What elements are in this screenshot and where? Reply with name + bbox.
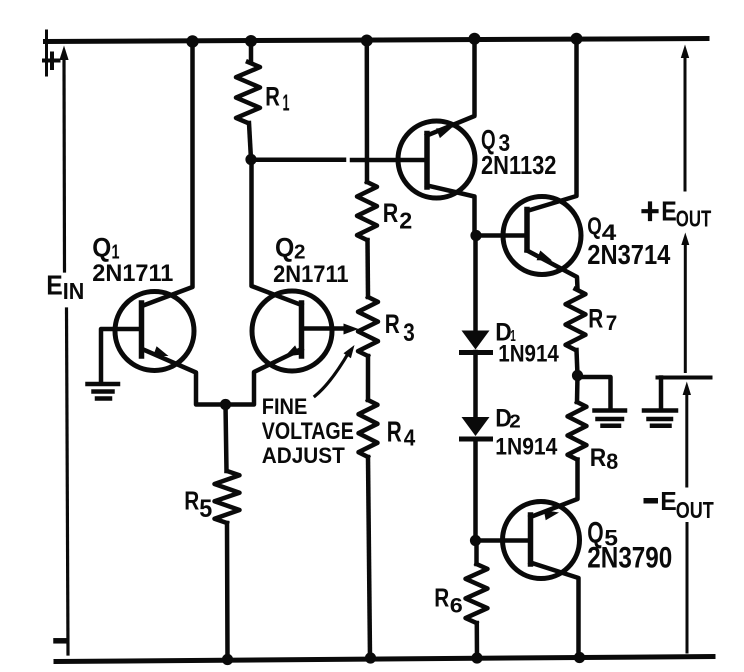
svg-text:1N914: 1N914: [495, 435, 558, 461]
wire R1 node to Q3 base, segment before crossover gap: [251, 158, 344, 163]
svg-text:3: 3: [403, 319, 415, 347]
svg-text:R: R: [385, 309, 400, 339]
wire ground symbol 2 stem: [659, 378, 664, 409]
ground symbol 1 at R7 R8 node: [595, 411, 626, 426]
svg-text:8: 8: [606, 449, 618, 474]
junction dot top rail at Q3 emitter: [469, 33, 481, 45]
junction dot Q5 base node: [470, 535, 481, 546]
wire top supply rail: [46, 39, 708, 42]
wire Q4 collector to top rail: [527, 39, 577, 212]
transistor Q5 base bar: [528, 515, 534, 564]
wire Q3 emitter to top rail: [427, 39, 475, 136]
svg-text:2N3790: 2N3790: [587, 541, 672, 574]
resistor R2: [357, 182, 377, 240]
wire R7 bottom to ground node: [577, 350, 578, 376]
junction dot Q3 collector node: [470, 230, 481, 241]
svg-text:2N1132: 2N1132: [481, 150, 557, 180]
diode D2 triangle: [462, 417, 490, 436]
svg-text:E: E: [661, 196, 677, 227]
wire R8 bottom to Q5 emitter: [531, 460, 578, 518]
diode D1 triangle: [462, 331, 490, 350]
transistor Q5 circle: [503, 502, 580, 579]
junction dot bottom rail at R6: [471, 652, 482, 663]
svg-text:OUT: OUT: [676, 206, 712, 232]
wire Q5 base lead: [476, 538, 531, 543]
svg-text:R: R: [590, 445, 607, 472]
svg-text:2N1711: 2N1711: [92, 261, 173, 287]
+E_OUT top arrowhead: [681, 45, 689, 59]
wire -E_OUT measurement line upper: [685, 393, 688, 486]
transistor Q4 base bar: [524, 210, 530, 251]
junction dot common emitter node: [220, 399, 231, 410]
svg-text:2N3714: 2N3714: [587, 239, 670, 270]
plus sign of +E_OUT label: [644, 204, 657, 220]
svg-text:6: 6: [450, 595, 463, 618]
resistor R4: [359, 400, 378, 457]
junction dot top rail at Q1 collector: [186, 35, 198, 47]
minus sign of -E_OUT label: [644, 498, 659, 504]
wire Q2 base to fine-adjust wiper: [302, 326, 345, 331]
svg-text:2: 2: [399, 208, 412, 234]
wire output ground tie line: [658, 376, 711, 380]
diode D2 cathode bar: [462, 437, 491, 442]
wire Q5 collector to bottom rail: [531, 563, 579, 658]
resistor R5: [215, 471, 240, 523]
wire R6 bottom to bottom rail: [475, 623, 480, 658]
wire common emitter node to R5: [226, 405, 227, 472]
wire R1 node to Q3 base, segment after crossover gap: [352, 158, 427, 163]
curved leader arrow for fine voltage adjust: [315, 352, 349, 396]
wire R4 to bottom rail: [368, 457, 370, 658]
transistor Q3 circle: [398, 121, 475, 198]
wire Q3 collector down to node: [427, 186, 475, 236]
wire Q2 emitter to common emitter node: [226, 349, 302, 405]
wire R1 top lead from rail: [249, 42, 254, 63]
wire ground node to ground symbol 1: [578, 377, 611, 409]
svg-text:IN: IN: [63, 278, 85, 304]
svg-text:FINE: FINE: [262, 394, 308, 419]
wire Q4 emitter to R7: [527, 251, 578, 290]
ground symbol 2 at output tie: [644, 411, 676, 426]
wire R3 to R4: [366, 356, 371, 400]
wire Q1 collector to top rail: [142, 42, 193, 307]
wire ground node to R8 top: [575, 376, 580, 403]
wire Q3 collector node to Q4 base: [476, 233, 527, 238]
svg-text:E: E: [660, 486, 677, 516]
ground symbol at Q1 base: [88, 384, 119, 399]
svg-text:2: 2: [509, 412, 521, 432]
junction dot bottom rail at Q5 collector: [574, 652, 585, 663]
svg-text:4: 4: [404, 425, 416, 451]
svg-text:2: 2: [294, 242, 306, 264]
wire -E_OUT measurement line lower: [686, 524, 689, 653]
wire Q1 base lead and ground stem: [101, 329, 142, 382]
junction dot bottom rail at R5: [222, 654, 233, 665]
wire R2 R3 R4 divider chain from top rail: [365, 41, 370, 183]
transistor Q2 emitter arrowhead: [285, 345, 300, 356]
transistor Q1 circle: [115, 292, 194, 371]
resistor R8: [568, 402, 587, 460]
transistor Q4 emitter arrowhead: [537, 251, 552, 261]
svg-text:1: 1: [283, 90, 290, 116]
wire left end tick of top rail: [45, 31, 48, 75]
fine voltage adjust leader arrowhead: [344, 345, 355, 358]
transistor Q3 emitter arrowhead: [436, 128, 451, 138]
transistor Q4 circle: [503, 197, 581, 275]
transistor Q5 emitter arrowhead: [544, 510, 559, 520]
svg-text:ADJUST: ADJUST: [262, 443, 345, 468]
wire D1 cathode to D2 anode: [473, 352, 478, 417]
wire D2 cathode to Q5 base node: [473, 440, 478, 541]
wire Q5 base node to R6: [474, 541, 479, 565]
junction dot bottom rail at R4: [365, 652, 376, 663]
plus polarity sign at E_IN top: [44, 54, 59, 69]
svg-text:R: R: [434, 585, 449, 613]
svg-text:1N914: 1N914: [498, 342, 559, 368]
wire R2 to R3: [365, 240, 370, 297]
wire Q2 collector to R1 node: [252, 160, 302, 306]
transistor Q1 base bar: [139, 303, 145, 356]
junction dot top rail at R2 chain: [361, 35, 373, 47]
svg-text:Q: Q: [275, 233, 294, 263]
svg-text:OUT: OUT: [676, 497, 714, 523]
wire E_IN measurement line upper segment: [62, 57, 66, 271]
resistor R1: [236, 62, 260, 123]
svg-text:R: R: [184, 486, 199, 516]
wire +E_OUT measurement line upper: [684, 56, 687, 190]
resistor R7: [566, 289, 586, 350]
+E_OUT mid arrowhead: [681, 233, 689, 246]
wire R1 bottom lead to node: [249, 123, 251, 160]
svg-text:VOLTAGE: VOLTAGE: [262, 419, 354, 445]
resistor R3 fine voltage adjust: [358, 297, 378, 356]
wire +E_OUT measurement line lower: [684, 243, 687, 372]
junction dot R1 bottom node: [245, 154, 256, 165]
minus polarity sign at E_IN bottom: [56, 638, 66, 644]
svg-text:R: R: [265, 82, 280, 112]
E_IN measurement arrowhead: [59, 46, 68, 61]
svg-text:5: 5: [199, 495, 212, 523]
diode D1 cathode bar: [462, 350, 491, 355]
svg-text:E: E: [46, 270, 63, 301]
wire R5 bottom to bottom rail: [225, 523, 230, 659]
junction dot top rail at Q4 collector: [571, 33, 583, 45]
svg-text:Q: Q: [92, 233, 111, 263]
junction dot R7 R8 ground node: [572, 370, 583, 381]
transistor Q2 circle: [252, 291, 332, 371]
resistor R6: [466, 564, 488, 623]
fine voltage adjust wiper arrowhead: [344, 324, 359, 335]
svg-text:Q: Q: [587, 214, 602, 240]
transistor Q2 base bar: [299, 303, 305, 356]
junction dot top rail at R1: [245, 35, 257, 47]
svg-text:R: R: [588, 302, 603, 333]
svg-text:7: 7: [606, 310, 618, 335]
svg-text:2N1711: 2N1711: [273, 262, 349, 288]
svg-text:R: R: [383, 198, 399, 228]
transistor Q3 base bar: [424, 134, 430, 188]
wire E_IN measurement line lower segment: [67, 309, 69, 654]
transistor Q1 emitter arrowhead: [153, 346, 168, 356]
wire bottom supply rail: [56, 657, 713, 662]
wire Q1 emitter to common emitter node: [142, 349, 226, 405]
svg-text:R: R: [387, 417, 402, 449]
wire node to diode D1: [473, 236, 478, 332]
-E_OUT arrowhead: [683, 382, 691, 396]
